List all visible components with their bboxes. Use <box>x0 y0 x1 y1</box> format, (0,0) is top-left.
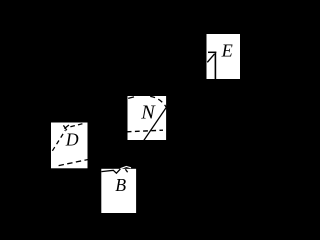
arrow diagonal stroke in E <box>207 54 214 62</box>
black dash where curve re-enters B <box>125 169 127 172</box>
svg-text:D: D <box>65 130 79 150</box>
dashed bottom line in D <box>59 160 88 166</box>
solid diagonal in N <box>144 107 167 141</box>
svg-text:N: N <box>140 102 156 124</box>
svg-text:E: E <box>221 41 233 61</box>
curve along top of B (black, inside box) <box>101 169 120 173</box>
dashed diagonal in D <box>52 130 65 151</box>
white curve peak above B box <box>120 167 131 169</box>
short dash top-left of N <box>128 97 134 99</box>
arrow horizontal stroke in E <box>208 51 216 53</box>
dashed curve top-right of N <box>150 96 166 107</box>
dashed horizontal line in N <box>127 130 163 132</box>
arrow vertical stroke in E <box>214 52 216 79</box>
dashed line rising right from cross mark in D <box>70 123 85 127</box>
box D <box>51 123 88 169</box>
box N <box>128 96 167 140</box>
cross mark above D (stroke 1) <box>63 125 66 130</box>
box B <box>101 169 136 213</box>
svg-text:B: B <box>115 175 126 195</box>
cross mark above D (stroke 2) <box>64 125 69 129</box>
box E <box>207 34 241 79</box>
